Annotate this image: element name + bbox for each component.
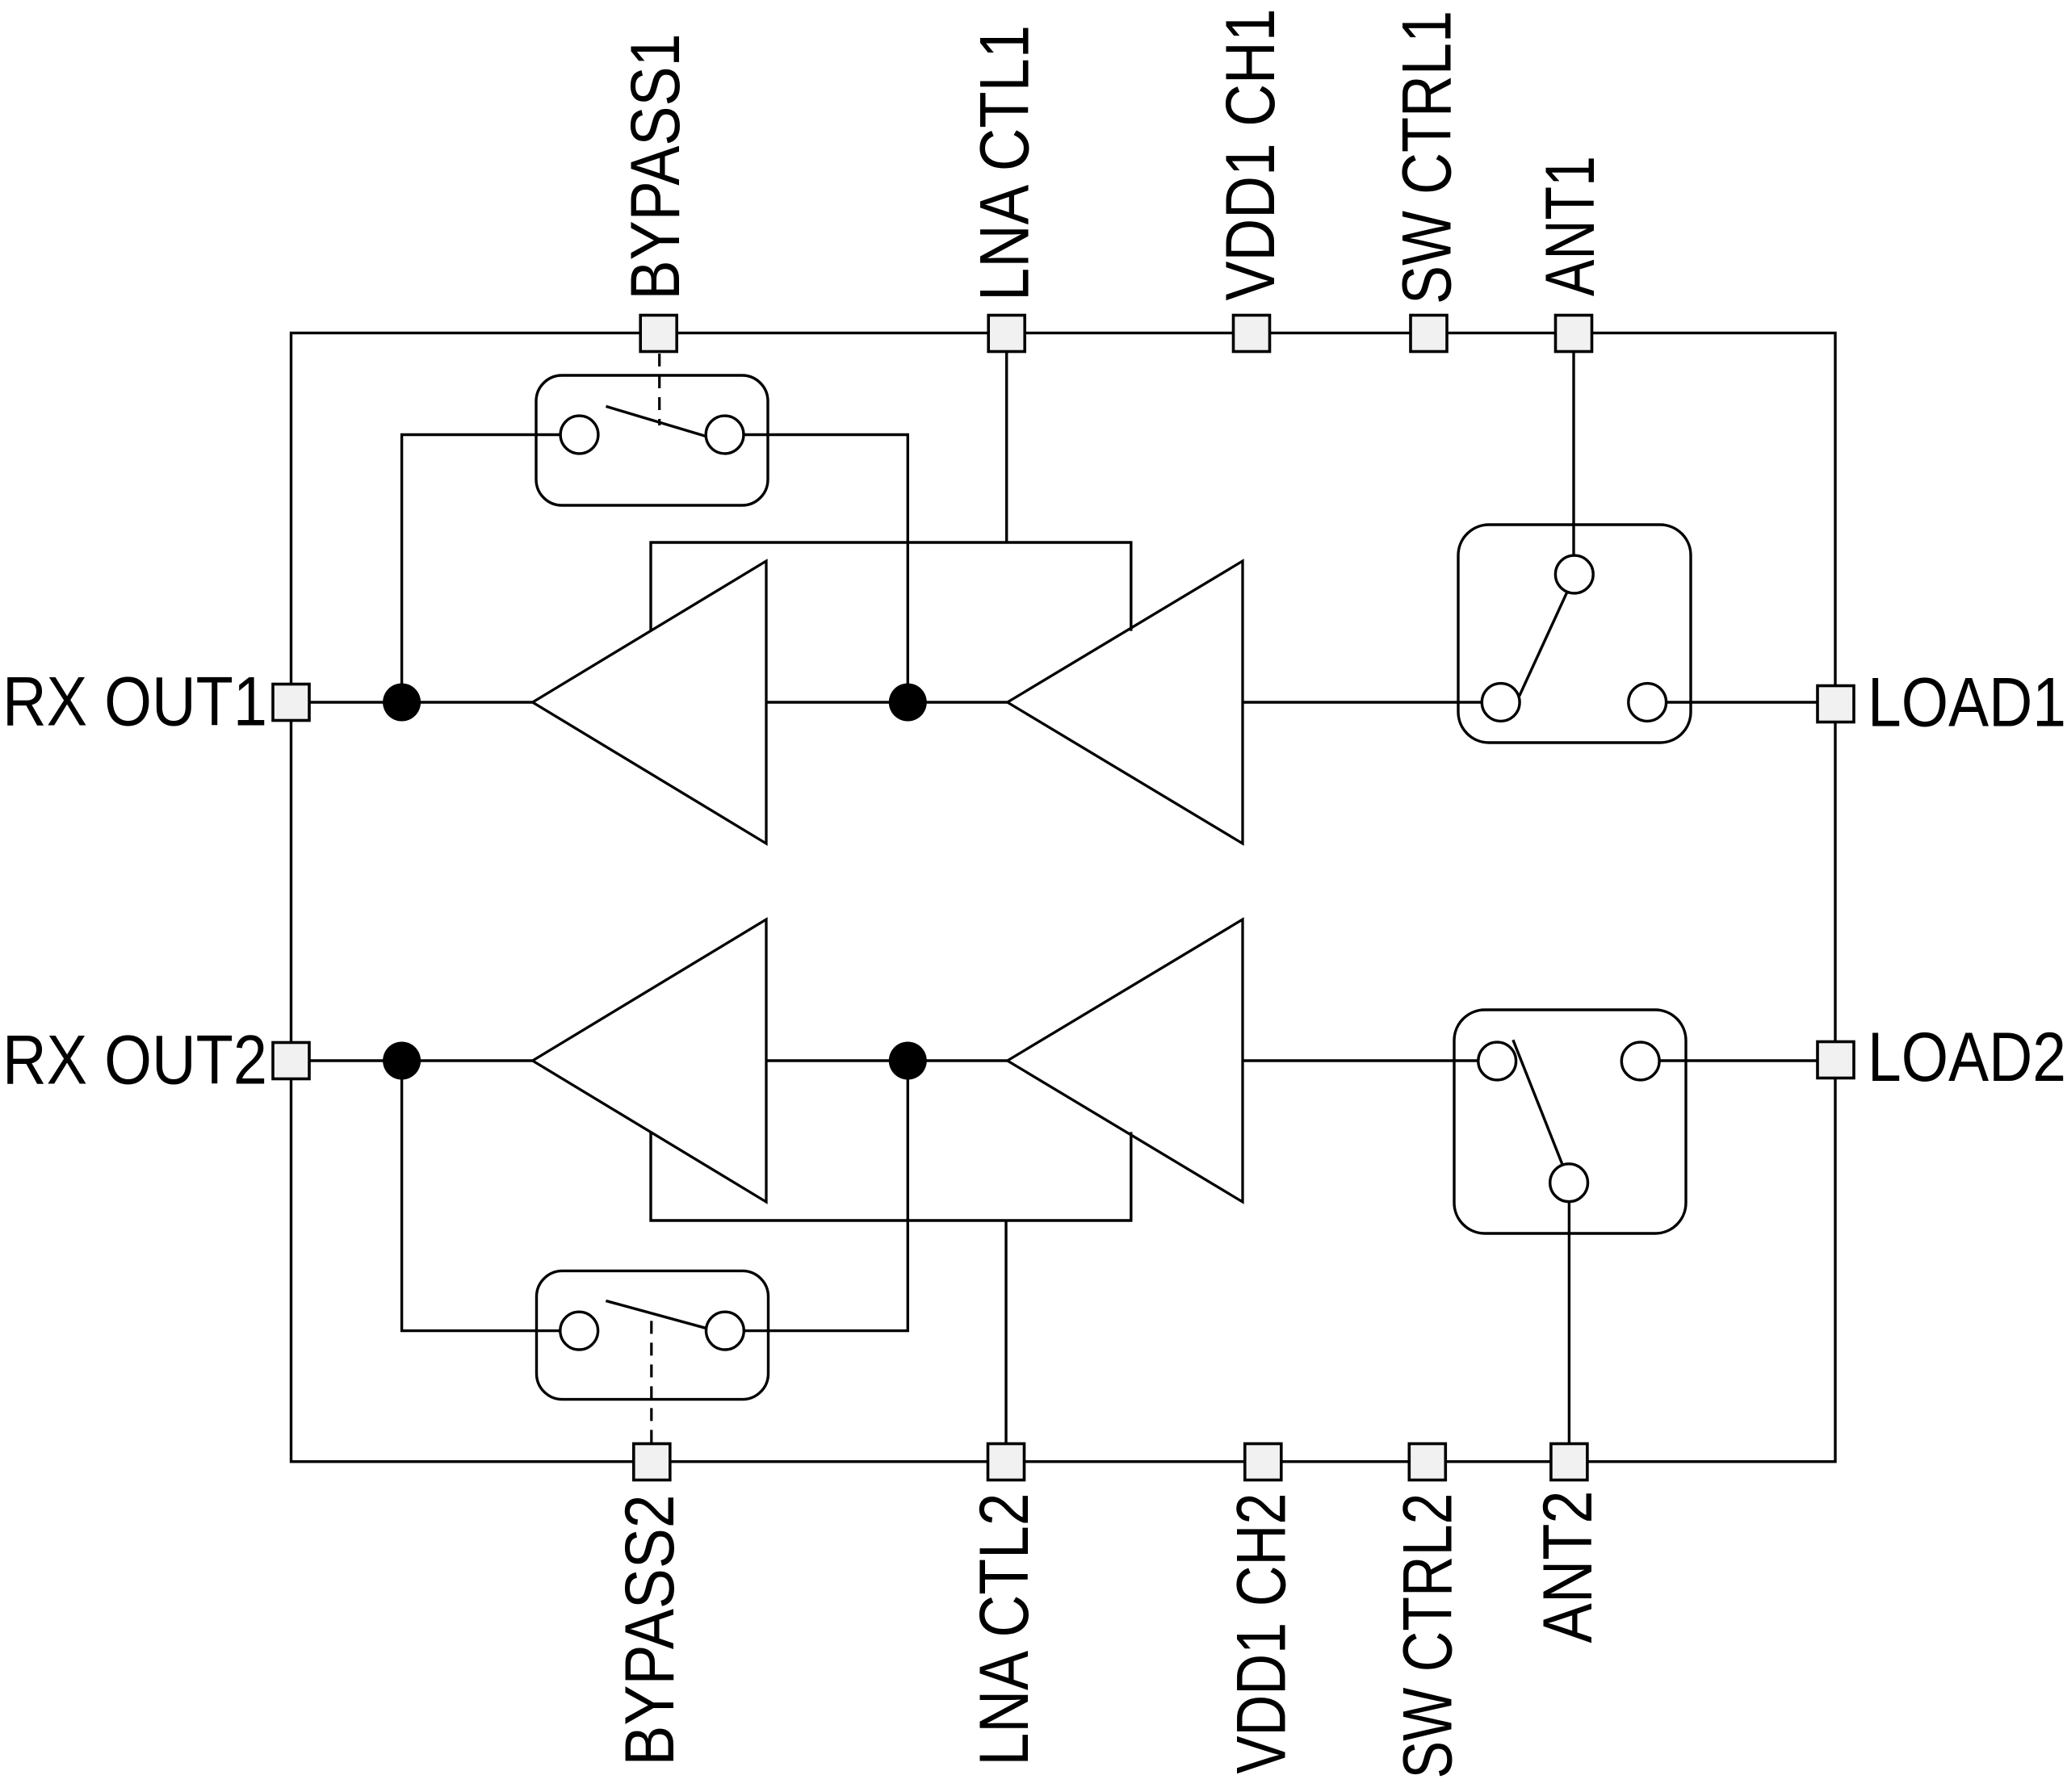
svg-text:VDD1 CH2: VDD1 CH2 bbox=[1223, 1493, 1301, 1774]
svg-text:ANT1: ANT1 bbox=[1532, 156, 1609, 296]
svg-text:SW CTRL2: SW CTRL2 bbox=[1390, 1493, 1467, 1779]
svg-text:RX OUT1: RX OUT1 bbox=[2, 663, 267, 740]
svg-text:ANT2: ANT2 bbox=[1529, 1491, 1607, 1643]
svg-text:LOAD2: LOAD2 bbox=[1868, 1019, 2066, 1096]
svg-text:LNA CTL2: LNA CTL2 bbox=[966, 1493, 1043, 1766]
svg-text:SW CTRL1: SW CTRL1 bbox=[1388, 10, 1465, 304]
svg-text:RX OUT2: RX OUT2 bbox=[2, 1021, 267, 1099]
svg-text:LNA CTL1: LNA CTL1 bbox=[966, 25, 1044, 301]
svg-text:BYPASS2: BYPASS2 bbox=[611, 1495, 689, 1766]
svg-text:BYPASS1: BYPASS1 bbox=[617, 34, 694, 300]
svg-text:LOAD1: LOAD1 bbox=[1868, 664, 2066, 742]
svg-text:VDD1 CH1: VDD1 CH1 bbox=[1212, 9, 1289, 301]
